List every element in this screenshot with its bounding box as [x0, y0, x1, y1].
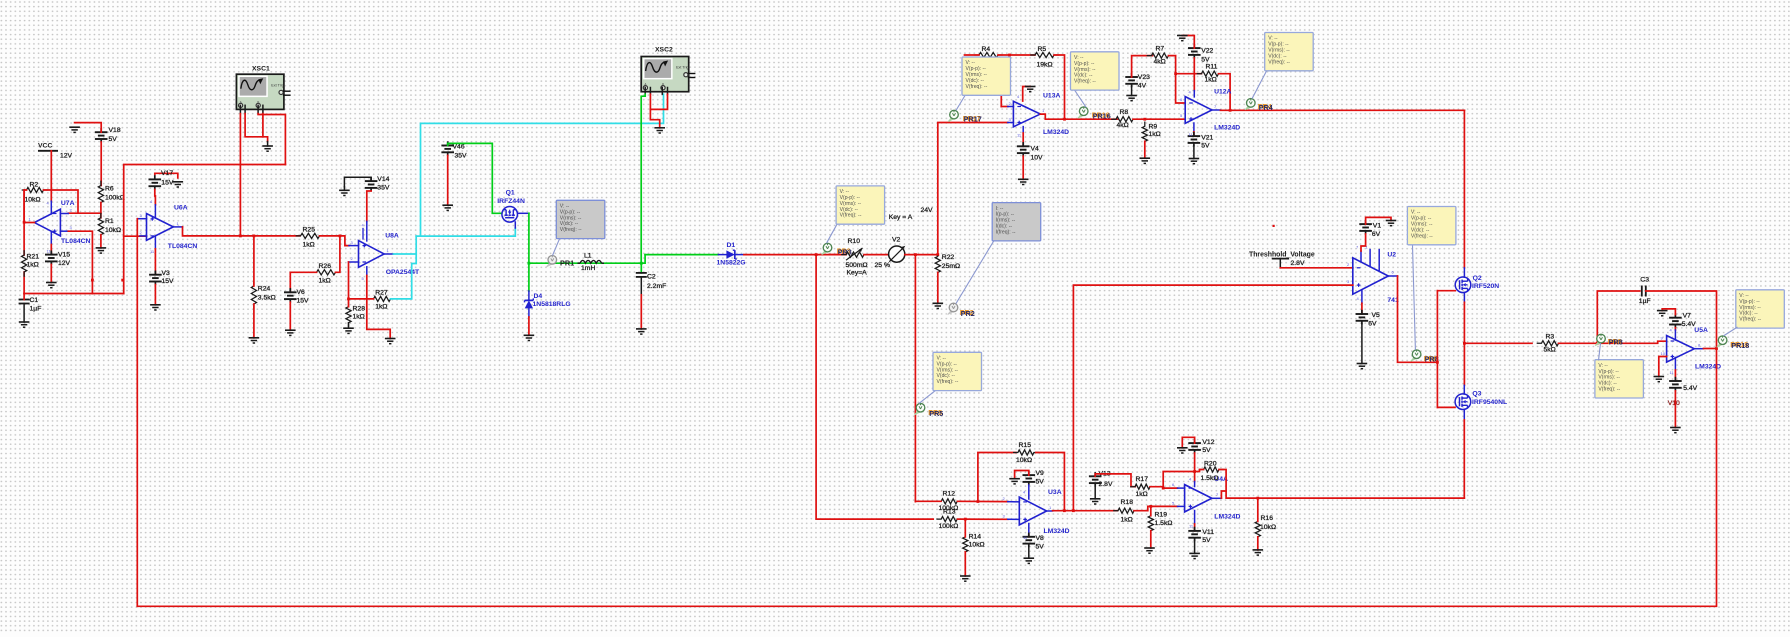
svg-text:1kΩ: 1kΩ: [1205, 77, 1217, 84]
power V23 4V: [1125, 73, 1150, 90]
resistor R16: [1255, 515, 1276, 541]
power V17 15V: [149, 170, 174, 190]
svg-text:1.5kΩ: 1.5kΩ: [1155, 520, 1173, 527]
wire D1 cathode stub: [736, 254, 744, 256]
svg-text:R27: R27: [375, 289, 388, 296]
junction R19: [1149, 505, 1152, 508]
wire V1 plus elbow: [1366, 217, 1391, 224]
resistor R8: [1112, 109, 1137, 129]
wire C2 top lead: [640, 263, 642, 273]
pin numbers U2: [1347, 245, 1395, 302]
svg-text:Q2: Q2: [1473, 275, 1482, 282]
wire XSC2 A- prong: [649, 88, 651, 95]
svg-text:V18: V18: [109, 127, 121, 134]
wire U3A V- stub: [1028, 524, 1030, 536]
svg-text:V(freq): --: V(freq): --: [1739, 317, 1761, 323]
label Threshhold_Voltage: [1249, 251, 1315, 258]
resistor R5: [1031, 46, 1058, 69]
svg-text:5V: 5V: [1201, 142, 1210, 149]
svg-text:5V: 5V: [1202, 447, 1211, 454]
wire R28 to ground: [348, 323, 350, 329]
wire U12A V- stub: [1193, 123, 1195, 132]
junction: [121, 279, 124, 282]
wire U13A V- stub: [1022, 127, 1024, 133]
svg-text:D1: D1: [727, 242, 736, 249]
svg-text:R10: R10: [848, 238, 861, 245]
wire XSC1 B+ loop: [258, 114, 285, 165]
wire R6 to R1: [100, 203, 102, 218]
power V6 15V: [284, 288, 309, 304]
wire XSC2 A+ green: [641, 94, 645, 263]
wire R10 to V2: [864, 254, 889, 256]
wire V13 to ground: [1094, 486, 1096, 499]
probe box PR1: [556, 200, 605, 238]
wire V15 to ground: [50, 265, 52, 283]
op-amp U4A: [1185, 476, 1241, 520]
ground at V12: [1177, 448, 1188, 453]
wire R1 to ground: [100, 235, 102, 248]
wire U12A output stub: [1212, 109, 1221, 111]
svg-text:LM324D: LM324D: [1044, 528, 1070, 535]
wire R26 left to V6: [290, 272, 316, 292]
svg-text:B: B: [257, 100, 259, 104]
ground at V9: [1009, 479, 1020, 484]
svg-text:Ext Trig: Ext Trig: [676, 66, 689, 70]
svg-text:V3: V3: [162, 270, 171, 277]
svg-text:1N5822G: 1N5822G: [717, 260, 746, 267]
wire D4 bottom stub: [528, 308, 530, 317]
probe PR2: [948, 303, 975, 318]
wire integrator node horizontal: [24, 293, 124, 295]
power V14 35V: [365, 176, 390, 192]
wire U2 V- stub: [1361, 291, 1363, 304]
svg-text:R17: R17: [1136, 476, 1149, 483]
wire node to U12A plus: [1150, 118, 1185, 120]
wire PR5 riser: [914, 255, 916, 502]
ground at U13A V+: [1025, 87, 1036, 92]
ground at R24: [249, 338, 260, 343]
wire R12 to minus node: [958, 500, 1008, 502]
wire U13A minus stub: [1008, 106, 1014, 108]
wire Q1 gate stub: [514, 222, 516, 228]
probe box PR16: [1071, 52, 1120, 90]
wire R2 right to R6-R1 node: [44, 190, 79, 213]
svg-text:TL084CN: TL084CN: [61, 238, 91, 245]
wire main bus after D1: [744, 254, 846, 256]
svg-text:5V: 5V: [1201, 57, 1210, 64]
svg-text:Threshhold_Voltage: Threshhold_Voltage: [1249, 251, 1315, 258]
svg-text:PR5: PR5: [929, 409, 943, 418]
wire XSC1 A+ prong: [239, 105, 241, 113]
svg-text:IRF9540NL: IRF9540NL: [1472, 399, 1507, 406]
svg-text:U7A: U7A: [61, 200, 75, 207]
svg-text:1kΩ: 1kΩ: [1121, 517, 1133, 524]
wire PR5 riser to R12: [915, 500, 941, 502]
svg-text:V10: V10: [1668, 400, 1680, 407]
svg-text:V(freq): --: V(freq): --: [840, 213, 862, 219]
junction U5A out: [1715, 347, 1718, 350]
wire output to Q2 drain: [1463, 110, 1465, 268]
junction R17-R20: [1162, 487, 1165, 490]
pin numbers U12A: [1180, 90, 1217, 138]
stray mark: [1273, 225, 1275, 227]
wire R25 to plus node: [320, 235, 340, 237]
resistor R24: [251, 282, 275, 308]
wire V18 minus to R6: [100, 142, 102, 185]
wire U8A V+ stub 2: [362, 229, 364, 240]
wire output to R3: [1464, 342, 1532, 344]
wire XSC2 A- red: [650, 94, 667, 109]
wire Q3 gate lead: [1437, 406, 1455, 408]
svg-text:U8A: U8A: [385, 232, 399, 239]
svg-text:U5A: U5A: [1694, 327, 1708, 334]
probe PR17: [948, 110, 982, 123]
ground at V17: [173, 182, 184, 187]
ground at R28: [343, 328, 354, 333]
svg-text:V11: V11: [1202, 529, 1214, 536]
wire U12A V+ stub: [1193, 91, 1195, 97]
leader PR2: [956, 241, 994, 304]
svg-text:R19: R19: [1155, 512, 1168, 519]
wire cyan to XSC2 riser: [421, 94, 664, 236]
wire U7A plus input to node: [68, 231, 92, 293]
wire XSC1 A- prong: [244, 105, 246, 113]
svg-text:B: B: [662, 83, 664, 87]
wire U3A output stub: [1047, 510, 1053, 512]
wire riser to R13: [816, 255, 933, 519]
probe box PR4: [1265, 33, 1314, 71]
pin numbers U6A: [140, 199, 180, 254]
power V13 2.8V: [1089, 470, 1113, 488]
ground at V3: [150, 305, 161, 310]
wire Q2 drain stub: [1463, 268, 1465, 277]
wire V23 to R7: [1132, 56, 1153, 77]
power V10 5.4V: [1668, 377, 1698, 407]
probe PR18: [1717, 336, 1749, 350]
svg-text:V46: V46: [453, 143, 465, 150]
op-amp U3A: [1019, 489, 1069, 535]
wire U3A plus stub: [1008, 518, 1020, 520]
svg-text:C3: C3: [1640, 276, 1649, 283]
wire gate bus: [1436, 291, 1438, 408]
junction U13A out: [1063, 118, 1066, 121]
wire node up to U6A bottom input: [124, 236, 147, 293]
leader PR1: [553, 239, 560, 256]
junction R13 riser: [815, 253, 818, 256]
svg-text:C2: C2: [647, 273, 656, 280]
wire PR3 to R10: [829, 254, 846, 256]
op-amp U6A: [147, 205, 198, 250]
wire U4A V- to V11: [1194, 524, 1196, 531]
wire Q3 drain stub: [1463, 385, 1465, 394]
resistor R9: [1142, 122, 1161, 145]
junction C2: [640, 262, 643, 265]
wire divider to U7A input: [68, 212, 101, 214]
svg-text:C1: C1: [30, 297, 39, 304]
wire V11 to ground: [1194, 541, 1196, 554]
leader PR16: [1075, 90, 1087, 107]
wire output node vertical upper: [23, 190, 25, 255]
pin numbers U8A: [351, 223, 390, 282]
wire global feedback right: [137, 349, 1716, 607]
svg-text:V4: V4: [1031, 146, 1040, 153]
resistor R21: [22, 251, 40, 276]
wire threshold to U2 minus: [1280, 267, 1353, 269]
svg-text:V(freq): --: V(freq): --: [560, 227, 582, 233]
wire U2 V- to V5: [1361, 303, 1363, 314]
wire U6A output: [173, 226, 182, 228]
junction R4-R5: [1008, 54, 1011, 57]
wire U3A V- to V8: [1028, 535, 1030, 537]
ground at XSC2: [654, 128, 665, 133]
wire R15 left riser: [978, 453, 1016, 502]
svg-text:19kΩ: 19kΩ: [1037, 62, 1053, 69]
svg-text:PR8: PR8: [1609, 338, 1623, 347]
wire R22 node riser to PR17: [938, 123, 1008, 255]
svg-text:V1: V1: [1373, 222, 1382, 229]
svg-text:6V: 6V: [1372, 231, 1381, 238]
svg-text:35V: 35V: [455, 152, 468, 159]
wire U2 balance stub1: [1360, 251, 1362, 262]
wire V22 plus elbow: [1182, 36, 1194, 49]
resistor R26: [312, 263, 339, 285]
ground at R19: [1144, 548, 1155, 553]
svg-text:4V: 4V: [1138, 82, 1147, 89]
wire U13A minus lead: [1001, 106, 1008, 108]
wire U8A plus stub: [349, 245, 359, 247]
leader PR18: [1724, 327, 1738, 336]
wire U3A out to U2 plus: [1073, 285, 1352, 511]
wire C2 to ground: [640, 295, 642, 329]
resistor R15: [1014, 442, 1038, 464]
ground at R1: [96, 248, 107, 253]
svg-text:5V: 5V: [1036, 479, 1045, 486]
wire C2 bottom lead: [640, 277, 642, 295]
wire U5A output: [1704, 348, 1717, 350]
junction at U7A output: [23, 221, 26, 224]
wire U8A V- to ground: [367, 276, 390, 339]
svg-text:24V: 24V: [921, 207, 934, 214]
ground at V5: [1357, 364, 1368, 369]
junction R22: [936, 253, 939, 256]
power V18 5V: [95, 127, 121, 143]
svg-text:R15: R15: [1019, 442, 1032, 449]
svg-text:R21: R21: [27, 253, 40, 260]
svg-text:PR17: PR17: [964, 115, 982, 124]
wire VCC to U7A V+: [50, 151, 52, 201]
junction R15 out: [1063, 509, 1066, 512]
ground at R22: [933, 303, 944, 308]
wire V46 to Q1 drain: [448, 143, 502, 213]
wire R18 to R19 node: [1134, 506, 1178, 510]
power V15 12V: [45, 250, 71, 267]
power V9 5V: [1023, 470, 1045, 486]
ground at V13: [1090, 499, 1101, 504]
svg-text:1kΩ: 1kΩ: [353, 314, 365, 321]
ground at V14: [339, 190, 350, 195]
ground at V7: [1657, 311, 1668, 316]
wire U4A plus stub: [1178, 505, 1185, 507]
power V46 35V: [441, 141, 467, 159]
svg-text:1kΩ: 1kΩ: [1136, 491, 1148, 498]
svg-text:V17: V17: [161, 170, 173, 177]
wire XSC1 B- drop: [262, 114, 264, 137]
op-amp U7A: [34, 200, 90, 245]
svg-text:5V: 5V: [1036, 544, 1045, 551]
svg-text:25mΩ: 25mΩ: [942, 263, 960, 270]
wire V14 top lead: [344, 177, 371, 187]
junction R11 out: [1229, 109, 1232, 112]
wire XSC1 B+ prong: [257, 105, 259, 113]
wire cyan gate run: [416, 228, 515, 236]
wire C1 top lead: [23, 294, 25, 300]
svg-text:4kΩ: 4kΩ: [1154, 59, 1166, 66]
svg-text:1.5kΩ: 1.5kΩ: [1201, 475, 1219, 482]
wire U7A top input stub: [60, 213, 68, 215]
svg-text:R5: R5: [1038, 46, 1047, 53]
probe box PR5: [933, 352, 982, 390]
wire C1 to ground: [23, 304, 25, 323]
transistor Q1 IRFZ44N: [497, 190, 525, 222]
wire U6A V- to V3: [154, 249, 156, 275]
wire D4 top stub: [528, 291, 530, 300]
svg-text:R26: R26: [319, 263, 332, 270]
svg-text:35V: 35V: [377, 185, 390, 192]
svg-text:R12: R12: [943, 491, 956, 498]
probe PR16: [1078, 107, 1111, 121]
resistor R12: [937, 491, 961, 513]
svg-text:5.4V: 5.4V: [1682, 321, 1696, 328]
wire U5A plus to ground: [1659, 357, 1667, 377]
leader PR8a: [1413, 246, 1416, 350]
svg-text:PR16: PR16: [1093, 111, 1111, 120]
resistor R22: [935, 252, 960, 276]
power V1 6V: [1359, 220, 1381, 238]
junction XSC1-A: [239, 235, 242, 238]
resistor R17: [1131, 476, 1154, 498]
wire U13A output jog: [1040, 114, 1064, 119]
resistor R3: [1537, 333, 1562, 353]
wire R9 to ground: [1144, 141, 1146, 158]
source V2: [889, 207, 933, 262]
node Threshhold 2.8V: [1272, 259, 1305, 267]
wire R19 to ground: [1150, 531, 1152, 548]
svg-text:V5: V5: [1372, 312, 1381, 319]
wire R2 left to output node: [24, 190, 26, 223]
wire V14 to U8A V+: [367, 191, 371, 221]
svg-text:VCC: VCC: [38, 143, 52, 150]
svg-text:10kΩ: 10kΩ: [1260, 524, 1276, 531]
capacitor C2: [636, 273, 666, 290]
svg-text:1kΩ: 1kΩ: [1149, 131, 1161, 138]
svg-text:R13: R13: [943, 509, 956, 516]
probe box PR17: [962, 57, 1011, 95]
svg-text:1kΩ: 1kΩ: [375, 304, 387, 311]
wire main LC node: [529, 262, 641, 264]
svg-text:15V: 15V: [161, 179, 174, 186]
wire U3A V+ stub: [1028, 485, 1030, 499]
wire R20 left lead: [1195, 470, 1204, 472]
svg-text:Q1: Q1: [506, 190, 515, 197]
wire V4 to ground: [1022, 156, 1024, 179]
svg-text:R3: R3: [1546, 333, 1555, 340]
svg-text:U13A: U13A: [1043, 93, 1060, 100]
svg-text:PR4: PR4: [1259, 103, 1273, 112]
wire U4A V+ stub: [1194, 482, 1196, 487]
op-amp U2 741: [1353, 252, 1399, 304]
svg-text:25 %: 25 %: [875, 262, 891, 269]
ground at U5A plus: [1654, 377, 1665, 382]
leader PR8b: [1599, 343, 1601, 360]
wire Q2 source to mid: [1463, 302, 1465, 343]
ground at V46: [442, 205, 453, 210]
wire R24 to ground: [253, 304, 255, 338]
svg-text:1N5818RLG: 1N5818RLG: [533, 301, 571, 308]
svg-text:1mH: 1mH: [581, 265, 595, 272]
wire V9 plus elbow: [1015, 471, 1029, 479]
wire XSC2 ground leg: [650, 109, 659, 127]
wire U13A minus riser: [1000, 95, 1002, 106]
inductor L1: [578, 252, 605, 272]
power V12 5V: [1188, 439, 1214, 454]
wire U2 output stub: [1388, 275, 1397, 277]
svg-text:LM324D: LM324D: [1043, 129, 1069, 136]
wire R4 to R5: [998, 54, 1035, 56]
ground at R14: [960, 576, 971, 581]
svg-text:V(freq): --: V(freq): --: [1411, 233, 1433, 239]
wire node to U8A plus: [340, 236, 349, 246]
wire XSC2 A+ prong: [644, 88, 646, 95]
svg-text:V(freq): --: V(freq): --: [1268, 59, 1290, 65]
svg-text:R22: R22: [942, 254, 955, 261]
wire Q3 source to U4A out: [1463, 420, 1465, 498]
wire XSC1 A-/B- tie: [245, 114, 268, 142]
svg-text:R28: R28: [353, 306, 366, 313]
wire V3 to ground: [154, 285, 156, 305]
resistor R1: [98, 214, 121, 239]
leader PR3: [827, 223, 838, 243]
pin numbers U13A: [1009, 94, 1046, 138]
junction: [91, 279, 94, 282]
junction R25-R26: [339, 235, 342, 238]
svg-text:XSC1: XSC1: [252, 65, 270, 72]
svg-text:15V: 15V: [162, 278, 175, 285]
power V4 10V: [1017, 142, 1043, 162]
wire R11 left lead: [1176, 73, 1202, 75]
svg-text:15V: 15V: [297, 297, 310, 304]
wire U4A output stub: [1212, 497, 1222, 499]
svg-text:U6A: U6A: [174, 205, 188, 212]
junction output node: [1463, 342, 1466, 345]
svg-text:6V: 6V: [1368, 321, 1377, 328]
wire U6A V+ stub: [154, 205, 156, 218]
probe box PR8 (U5A): [1595, 360, 1644, 398]
junction C3 left: [1596, 342, 1599, 345]
wire V6 to ground: [289, 302, 291, 330]
svg-text:V14: V14: [377, 176, 389, 183]
capacitor C1: [19, 297, 42, 313]
svg-text:Ext Trig: Ext Trig: [271, 83, 284, 87]
wire U7A output: [24, 222, 34, 224]
wire V8 to ground: [1028, 547, 1030, 559]
svg-text:R20: R20: [1204, 460, 1217, 467]
wire U7A bottom input stub: [60, 230, 68, 232]
pin numbers U5A: [1661, 328, 1702, 376]
wire U6A V- stub: [154, 236, 156, 249]
ground at V11: [1189, 553, 1200, 558]
wire V5 to ground: [1361, 324, 1363, 364]
junction R8-R9: [1143, 118, 1146, 121]
